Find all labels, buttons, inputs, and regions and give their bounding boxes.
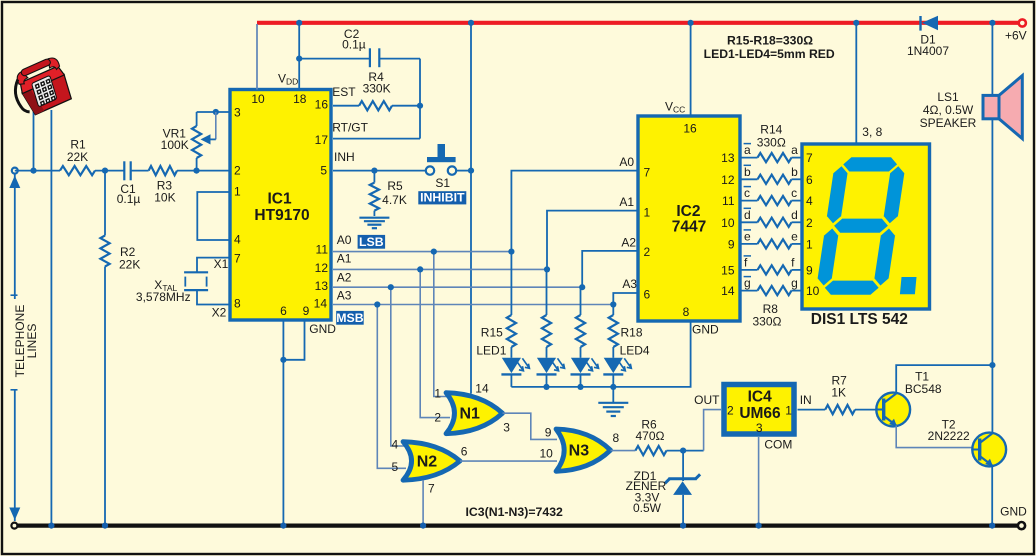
ground under R5 [359,218,389,229]
svg-text:3: 3 [756,421,763,435]
node VR1 bottom junction [193,168,199,174]
node R5 junction [371,168,377,174]
7-segment digit [815,157,907,295]
wire R3 to IC1 pin2 [177,170,230,172]
svg-text:GND: GND [309,322,336,336]
node phone line b to ground rail [48,523,54,529]
tag LSB [358,235,386,249]
node IC1 gnd to rail [280,523,286,529]
OR gate N2 [403,442,460,481]
svg-text:4.7K: 4.7K [382,193,407,207]
wire S1 to +6V drop [456,170,471,172]
svg-text:11: 11 [722,194,735,208]
resistor segment d row [740,221,758,223]
ground rail left terminal [11,523,17,529]
wire N2 pin7 to ground rail [422,480,424,526]
svg-text:10K: 10K [154,191,175,205]
wire VR1 bottom lead [196,158,198,171]
resistor segment e row [740,243,758,245]
speaker LS1 [999,76,1022,139]
wire IC1 pin7 to crystal [197,258,230,273]
wire A1 to N1 pin2 [420,269,450,417]
wire S1 node down to IC3 pin14 (N1 Vcc) [470,171,472,394]
IC IC1 HT9170 [230,90,331,321]
wire VR1 top lead [196,112,198,126]
node IC4 COM on rail [756,523,762,529]
node LED2/common [543,384,549,390]
svg-text:16: 16 [315,98,329,112]
wire LED4 to common [612,374,614,387]
svg-text:RT/GT: RT/GT [332,121,368,135]
node A3/N2 feeder [374,301,380,307]
svg-text:9: 9 [728,237,735,251]
node LED4/common/ground [610,384,616,390]
svg-text:N2: N2 [417,453,438,470]
svg-text:IC3(N1-N3)=7432: IC3(N1-N3)=7432 [465,505,563,519]
svg-text:d: d [791,208,798,222]
svg-text:b: b [744,165,751,179]
wire IC1 pins 6,9 to ground rail [282,320,284,526]
resistor R4 [333,105,359,107]
wire N2 out to N3 pin10 [460,460,557,462]
node R6/ZD1/IC4 [680,448,686,454]
svg-text:9: 9 [806,263,813,277]
svg-text:BC548: BC548 [905,382,942,396]
svg-text:4: 4 [234,233,241,247]
resistor R18 [612,305,614,316]
resistor R17 [580,287,582,315]
wire N1 out to N3 pin9 [503,413,558,439]
svg-text:7447: 7447 [672,219,706,236]
node T2 emitter on rail [989,523,995,529]
node R4/C2 junction [417,103,423,109]
wire crystal to IC1 pin8 [197,290,230,304]
svg-text:GND: GND [692,322,719,336]
svg-text:HT9170: HT9170 [254,207,309,224]
svg-text:OUT: OUT [694,393,720,407]
wire T1 collector to speaker line [896,365,992,394]
svg-text:R15: R15 [481,325,503,339]
svg-text:2: 2 [806,216,813,230]
ground under LEDs [598,403,628,416]
wire A0 riser to IC2 pin7 [511,171,638,252]
svg-text:2: 2 [727,404,734,418]
svg-text:17: 17 [315,133,329,147]
resistor R5 [370,183,379,211]
resistor R16 [546,269,548,315]
svg-text:5: 5 [392,460,399,474]
ground rail (black) [15,523,1022,527]
wire T1 emitter to T2 base [896,426,973,448]
svg-text:INH: INH [334,150,355,164]
wire display common anode 3,8 to rail [855,23,857,144]
svg-text:6: 6 [806,173,813,187]
svg-text:0.1µ: 0.1µ [342,38,366,52]
svg-text:d: d [744,208,751,222]
wire C2 to R4 node [379,58,420,60]
svg-text:7: 7 [428,481,435,495]
svg-text:2: 2 [234,164,241,178]
crystal top plate [184,271,208,273]
wire rail to S1 node [470,23,472,171]
wire A1 riser to IC2 pin1 [547,211,638,270]
tag INHIBIT [418,191,466,205]
svg-text:N3: N3 [569,443,590,460]
svg-text:1K: 1K [831,386,846,400]
svg-text:A1: A1 [337,252,352,266]
wire A3 (IC1 pin14) [333,304,613,306]
OR gate N1 [446,393,503,434]
svg-text:e: e [791,230,798,244]
svg-text:330Ω: 330Ω [753,314,782,328]
node A0/N1 feeder [431,249,437,255]
wire R6 to node [667,450,704,452]
wire LED2 to common [546,374,548,387]
svg-text:8: 8 [683,305,690,319]
svg-text:1: 1 [644,205,651,219]
svg-text:A1: A1 [619,195,634,209]
wire IC1 pin1-pin4 loop [197,192,229,240]
svg-text:N1: N1 [460,406,481,423]
resistor R6 [635,446,666,455]
overbar a [744,143,751,145]
wire A2 riser to IC2 pin2 [582,251,638,287]
svg-text:10: 10 [251,92,265,106]
+6V power rail (red) [257,21,1019,25]
wire VDD node to IC1 pin18 [298,59,300,90]
wire T2 emitter to ground rail [991,466,993,526]
svg-text:11: 11 [316,243,329,257]
node A0/riser [508,249,514,255]
svg-text:INHIBIT: INHIBIT [420,191,465,205]
node A3/riser [610,301,616,307]
node pin6/pin9 tie [280,357,286,363]
svg-text:3: 3 [503,421,510,435]
wire A1 (IC1 pin12) [333,268,547,270]
svg-text:c: c [744,186,750,200]
wire IC4 IN to R7 [798,409,826,411]
svg-text:330Ω: 330Ω [757,136,786,150]
node T1 collector/speaker/T2 [989,362,995,368]
svg-text:470Ω: 470Ω [636,429,665,443]
svg-text:14: 14 [314,296,328,310]
wire RT/GT to node [333,138,420,140]
node S1/+6V vertical [468,168,474,174]
svg-text:13: 13 [315,279,329,293]
node IC3 gnd on rail [420,523,426,529]
wire R18 to LED4 [612,347,614,358]
svg-text:15: 15 [721,263,735,277]
node LED3/common [577,384,583,390]
VR1 body [192,126,201,158]
overbar d [744,207,751,209]
resistor R2 body [100,236,109,267]
wire A2 to N2 pin4 [391,287,408,446]
svg-text:1: 1 [806,237,813,251]
svg-text:A0: A0 [337,233,352,247]
svg-text:COM: COM [764,437,792,451]
svg-text:4: 4 [392,438,399,452]
svg-text:R5: R5 [387,179,403,193]
svg-text:1: 1 [785,404,792,418]
svg-text:+6V: +6V [1005,29,1027,43]
wire A3 riser to IC2 pin6 [613,293,638,305]
svg-text:100K: 100K [161,138,189,152]
svg-text:LS1: LS1 [937,90,959,104]
svg-text:9: 9 [303,304,310,318]
wire to R2 [104,171,106,236]
svg-text:10: 10 [806,284,820,298]
wire VR1 top to IC1 pin3 [197,111,230,113]
svg-text:A3: A3 [622,277,637,291]
svg-text:0.1µ: 0.1µ [117,192,141,206]
wire phone line a [33,110,35,171]
node R1/C1/R2 junction [102,168,108,174]
svg-text:8: 8 [234,297,241,311]
svg-text:6: 6 [280,304,287,318]
resistor segment g row [740,290,758,292]
svg-text:2: 2 [434,411,441,425]
svg-text:7: 7 [806,151,813,165]
wire C1 to R3 [131,170,149,172]
svg-text:A3: A3 [337,288,352,302]
svg-text:IN: IN [800,393,812,407]
svg-text:IC2: IC2 [676,203,700,220]
LED LED4 [603,358,631,375]
svg-text:A2: A2 [337,270,352,284]
wire phone line b [50,110,52,526]
svg-text:LSB: LSB [359,235,384,249]
svg-text:2: 2 [644,245,651,259]
svg-text:S1: S1 [435,176,450,190]
R18 body [609,315,618,347]
wire C2/R4/RTGT vertical [419,59,421,139]
svg-text:e: e [744,230,751,244]
node VDD/C2 [296,56,302,62]
svg-text:5: 5 [320,164,327,178]
wire rail to IC2 Vcc [690,23,692,116]
svg-text:X2: X2 [212,306,227,320]
svg-text:R14: R14 [760,123,782,137]
svg-text:g: g [744,276,751,290]
wire ZD1 to ground rail [682,495,684,526]
svg-text:6: 6 [461,444,468,458]
capacitor C2 [299,58,370,60]
wire LED1 to common [510,374,512,387]
wire node to IC4 OUT [704,410,721,451]
R15 body [507,315,516,347]
wire down to T2 collector [991,365,993,434]
node A1/riser [544,266,550,272]
svg-text:a: a [791,143,798,157]
node R2 to ground rail [102,523,108,529]
svg-text:22K: 22K [119,258,140,272]
svg-text:10: 10 [721,216,735,230]
wire A3 to N2 pin5 [377,305,406,469]
LED LED1 [501,358,529,375]
switch S1 pushbutton [426,166,434,174]
svg-text:A0: A0 [619,155,634,169]
svg-text:7: 7 [644,165,651,179]
resistor R3 [149,166,177,175]
resistor segment b row [740,178,758,180]
resistor segment f row [740,269,758,271]
svg-text:2N2222: 2N2222 [928,429,970,443]
overbar b [744,164,751,166]
IC IC4 UM66 [724,385,794,435]
LED LED2 [537,358,565,375]
transistor T2 2N2222 [972,433,1006,467]
IC IC2 7447 [638,116,740,321]
+6V terminal [1019,19,1026,26]
wire IC4 COM to ground rail [758,437,760,526]
resistor segment a row [740,157,758,159]
wire LED3 to common [580,374,582,387]
svg-text:4Ω, 0.5W: 4Ω, 0.5W [923,103,974,117]
svg-text:3,578MHz: 3,578MHz [136,290,191,304]
svg-text:c: c [791,186,797,200]
wire R16 to LED2 [546,347,548,358]
node A2/riser [579,284,585,290]
svg-text:6: 6 [644,288,651,302]
wire rail to VDD node [298,23,300,59]
svg-text:IC4: IC4 [748,388,773,405]
wire R2 to ground rail [104,267,106,526]
svg-text:LED1-LED4=5mm RED: LED1-LED4=5mm RED [704,47,835,61]
svg-text:g: g [791,276,798,290]
svg-text:1N4007: 1N4007 [907,44,949,58]
svg-text:DIS1 LTS 542: DIS1 LTS 542 [811,311,908,328]
capacitor C1 [123,161,125,180]
zener diode ZD1 [682,451,684,481]
transistor T1 BC548 [876,393,910,427]
R16 body [542,315,551,347]
svg-text:MSB: MSB [336,311,363,325]
wire rail to speaker/T2 [991,23,993,365]
telephone line wire with arrows [14,174,16,299]
svg-text:12: 12 [721,173,735,187]
overbar c [744,186,751,188]
node on rail above S1 [468,20,474,26]
svg-text:7: 7 [234,252,241,266]
wire R7 to T1 base [855,409,877,411]
ground rail right terminal [1018,522,1025,529]
overbar g [744,276,751,278]
crystal bottom plate [184,289,208,291]
svg-text:10: 10 [540,447,554,461]
svg-text:IC1: IC1 [267,191,292,208]
svg-text:A2: A2 [621,235,636,249]
wire R1 to C1 [95,170,124,172]
svg-text:22K: 22K [67,150,88,164]
overbar f [744,255,751,257]
resistor R1 [60,166,95,175]
node VR1 wiper tie [213,109,219,115]
svg-text:3, 8: 3, 8 [862,125,882,139]
wire LED common to IC2 GND [511,321,690,387]
wire R17 to LED3 [580,347,582,358]
svg-text:4: 4 [806,194,813,208]
display DIS1 LTS542 [802,144,930,309]
wire N3 out to R6 [611,450,636,452]
resistor R15 [510,252,512,315]
svg-text:9: 9 [545,426,552,440]
svg-text:12: 12 [315,261,329,275]
svg-text:1: 1 [234,184,241,198]
svg-text:X1: X1 [214,257,229,271]
svg-text:330K: 330K [363,82,391,96]
telephone icon [7,55,74,119]
wire R15 to LED1 [510,347,512,358]
svg-text:13: 13 [721,151,735,165]
telephone line terminal (top) [12,168,18,174]
wire +6V rail to IC1 pin10 [256,24,258,90]
wire A0 (IC1 pin11) [333,251,511,253]
svg-text:SPEAKER: SPEAKER [920,116,977,130]
node rail/IC2 Vcc [688,20,694,26]
svg-text:UM66: UM66 [739,405,781,422]
node A1/N1 feeder [417,266,423,272]
resistor R7 [825,405,855,414]
svg-text:EST: EST [332,85,356,99]
wire A0 to N1 pin1 [434,252,452,397]
overbar e [744,229,751,231]
wire IC1 pin5 to S1 [333,170,428,172]
svg-text:16: 16 [683,122,697,136]
node junction phone/main [30,168,36,174]
R17 body [576,315,585,347]
svg-text:a: a [744,143,751,157]
svg-text:R18: R18 [620,325,642,339]
svg-text:LED1: LED1 [476,343,506,357]
diode D1 1N4007 [919,16,921,31]
svg-text:3: 3 [234,106,241,120]
node A2/N2 feeder [388,284,394,290]
svg-text:8: 8 [613,431,620,445]
svg-text:14: 14 [475,382,489,396]
svg-text:LED4: LED4 [620,344,650,358]
resistor segment c row [740,200,758,202]
svg-text:GND: GND [1000,504,1027,518]
svg-text:R15-R18=330Ω: R15-R18=330Ω [727,34,813,48]
VR1 wiper arrow [215,112,217,139]
svg-text:0.5W: 0.5W [633,501,662,515]
node rail/display [853,20,859,26]
svg-text:1: 1 [434,387,441,401]
node rail/speaker [989,20,995,26]
LED LED3 [571,358,599,375]
wire main input line [15,170,60,172]
wire A2 (IC1 pin13) [333,286,582,288]
OR gate N3 [556,429,611,471]
wire common to ground symbol [612,387,614,403]
node rail/VDD [296,20,302,26]
node ZD1 on rail [680,523,686,529]
svg-text:14: 14 [721,284,735,298]
tag MSB [336,311,364,325]
svg-text:18: 18 [293,92,307,106]
svg-text:b: b [791,165,798,179]
